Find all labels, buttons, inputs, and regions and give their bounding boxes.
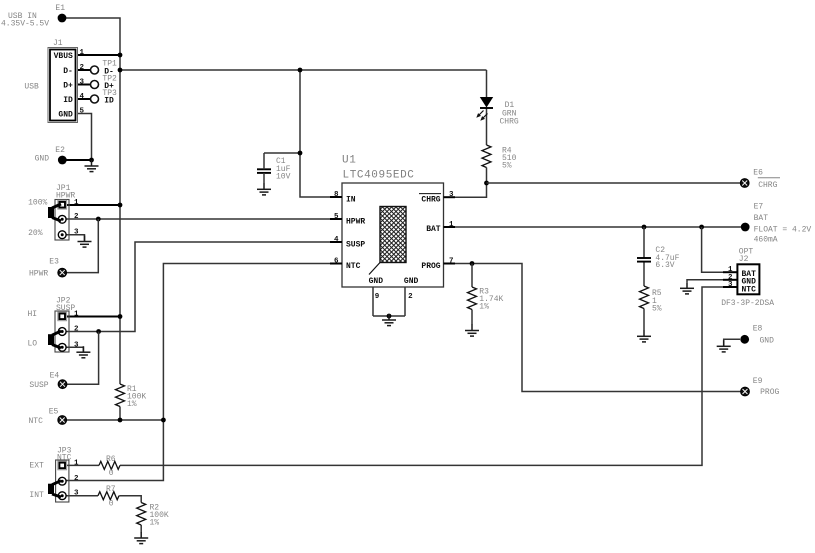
label C1 value — [276, 157, 291, 181]
svg-text:E4: E4 — [50, 372, 60, 381]
shunt bracket JP1 — [48, 204, 61, 221]
wire R3 bottom to ground — [471, 310, 473, 326]
ground at R3 — [465, 325, 479, 337]
wire C2 top — [643, 227, 645, 258]
node BAT-C2 — [642, 225, 647, 230]
connector J1 — [48, 48, 78, 123]
svg-text:E1: E1 — [55, 4, 65, 13]
wire VBUS vertical below R1 — [119, 407, 121, 421]
svg-text:BAT: BAT — [426, 225, 441, 234]
svg-text:EXT: EXT — [29, 462, 44, 471]
node C1-tap — [298, 151, 303, 156]
wire C1 tap — [264, 152, 300, 154]
svg-text:3: 3 — [74, 490, 79, 498]
wire J1 pin2 to TP1 — [78, 69, 91, 71]
svg-text:NTC: NTC — [29, 417, 44, 426]
svg-text:3: 3 — [74, 341, 79, 349]
test point TP2 — [91, 81, 99, 89]
svg-text:2: 2 — [80, 64, 85, 72]
svg-text:1: 1 — [80, 49, 85, 57]
svg-text:SUSP: SUSP — [56, 304, 75, 313]
svg-text:1%: 1% — [479, 303, 489, 312]
svg-text:R6: R6 — [106, 455, 116, 464]
svg-text:HI: HI — [28, 310, 38, 319]
svg-text:2: 2 — [408, 293, 413, 301]
shunt bracket JP2 — [48, 331, 61, 348]
svg-text:USB: USB — [24, 83, 39, 92]
wire J1 pin5 to ground — [78, 114, 92, 161]
jumper JP3 — [56, 460, 69, 502]
terminal E7 — [741, 223, 750, 232]
svg-text:ID: ID — [104, 96, 114, 105]
connector J2 — [723, 264, 759, 294]
resistor R1 — [116, 384, 125, 407]
wire E1 to VBUS vertical — [64, 18, 120, 384]
wire R6 to J2 NTC — [120, 287, 737, 465]
wire J1 pin4 to TP3 — [78, 98, 91, 100]
wire PROG to corner — [444, 264, 742, 392]
wire JP2 pin2 to SUSP pin — [66, 242, 342, 332]
svg-text:GND: GND — [58, 111, 73, 120]
wire BAT line to E7 — [444, 226, 742, 228]
svg-text:HPWR: HPWR — [29, 270, 48, 279]
svg-text:GND: GND — [760, 336, 775, 345]
svg-text:6.3V: 6.3V — [655, 261, 674, 270]
svg-text:5%: 5% — [502, 162, 512, 171]
label C2 value — [655, 246, 679, 270]
ground at E8 — [717, 340, 731, 352]
wire JP1 pin2 to HPWR pin — [66, 218, 342, 220]
wire R3 top — [471, 264, 473, 288]
node JP2pin1-VBUS — [118, 314, 123, 319]
wire CHRG to E6 — [487, 182, 742, 184]
test point TP1 — [91, 66, 99, 74]
node U1-gnd — [387, 314, 392, 319]
wire E8 to ground — [724, 339, 740, 346]
svg-text:CHRG: CHRG — [421, 196, 440, 205]
svg-text:3: 3 — [80, 78, 85, 86]
svg-text:E6: E6 — [753, 168, 763, 177]
svg-text:FLOAT = 4.2V: FLOAT = 4.2V — [754, 226, 812, 235]
wire R7 to R2 — [119, 496, 141, 503]
ground at C1 — [257, 183, 271, 195]
svg-text:D+: D+ — [63, 82, 73, 91]
wire JP3 pin1 to R6 — [66, 464, 99, 466]
wire JP2 pin1 to VBUS — [66, 316, 120, 318]
svg-text:2: 2 — [74, 326, 79, 334]
resistor R3 — [468, 287, 477, 310]
node BAT-J2 — [699, 225, 704, 230]
wire J1 pin1 stub — [78, 54, 121, 56]
svg-text:100%: 100% — [28, 199, 47, 208]
svg-text:NTC: NTC — [346, 262, 361, 271]
node IN-branch — [298, 68, 303, 73]
node NTC-R1 — [118, 418, 123, 423]
wire NTC pin to JP3 pin2 — [66, 264, 342, 481]
node JP1pin1-VBUS — [118, 203, 123, 208]
wire E5 NTC horizontal — [66, 419, 163, 421]
svg-text:20%: 20% — [28, 229, 43, 238]
jumper JP2 — [55, 311, 69, 352]
svg-text:GND: GND — [35, 155, 50, 164]
wire J1 pin3 to TP2 — [78, 84, 91, 86]
svg-text:7: 7 — [449, 258, 454, 266]
svg-text:HPWR: HPWR — [56, 192, 75, 201]
ground at R5 — [637, 330, 651, 342]
svg-text:HPWR: HPWR — [346, 218, 365, 227]
svg-text:DF3-3P-2DSA: DF3-3P-2DSA — [721, 299, 774, 308]
svg-text:9: 9 — [375, 293, 380, 301]
wire IN drop vertical — [300, 70, 342, 197]
svg-text:LTC4095EDC: LTC4095EDC — [343, 170, 415, 182]
terminal E2 — [58, 156, 67, 165]
svg-text:5%: 5% — [652, 305, 662, 314]
svg-text:5: 5 — [334, 213, 339, 221]
wire VBUS horizontal to IN and D1 — [120, 69, 487, 71]
label R5 value — [652, 289, 662, 313]
label R6 value — [106, 455, 116, 478]
ground at J2 pin2 — [680, 282, 694, 294]
svg-text:4: 4 — [334, 236, 339, 244]
node VBUS-tap — [118, 68, 123, 73]
wire C2 to R5 — [643, 262, 645, 287]
label R7 value — [106, 485, 116, 509]
wire R4 to CHRG — [444, 168, 487, 198]
wire R5 to ground — [643, 309, 645, 331]
svg-text:SUSP: SUSP — [346, 241, 365, 250]
label R1 value — [127, 385, 146, 409]
svg-text:E3: E3 — [49, 258, 59, 267]
svg-text:1: 1 — [449, 221, 454, 229]
svg-text:GND: GND — [404, 277, 419, 286]
wire D1 anode drop — [486, 70, 488, 97]
wire JP1 pin1 to VBUS — [66, 204, 120, 206]
svg-text:0: 0 — [109, 499, 114, 508]
svg-text:3: 3 — [449, 191, 454, 199]
svg-text:INT: INT — [29, 491, 44, 500]
svg-text:3: 3 — [728, 281, 733, 289]
LED D1 — [476, 97, 493, 121]
wire JP1 pin3 to ground — [66, 235, 85, 242]
terminal E5 — [58, 416, 67, 425]
resistor R5 — [640, 286, 649, 309]
terminal E9 — [741, 387, 750, 396]
terminal E4 — [58, 380, 67, 389]
svg-text:1%: 1% — [127, 400, 137, 409]
svg-text:J2: J2 — [739, 255, 749, 264]
svg-text:5: 5 — [80, 107, 85, 115]
svg-text:GND: GND — [369, 277, 384, 286]
svg-text:VBUS: VBUS — [54, 52, 73, 61]
svg-text:0: 0 — [109, 469, 114, 478]
svg-text:E2: E2 — [55, 146, 65, 155]
node PROG-R3 — [470, 261, 475, 266]
terminal E3 — [58, 268, 67, 277]
wire E4 to SUSP net — [66, 332, 99, 385]
capacitor C2 — [637, 258, 651, 262]
ground at U1 — [382, 314, 396, 326]
svg-text:NTC: NTC — [57, 453, 72, 462]
svg-text:E8: E8 — [753, 325, 763, 334]
resistor R4 — [482, 145, 491, 168]
node NTC-vert — [161, 418, 166, 423]
svg-text:ID: ID — [63, 96, 73, 105]
wire E2 to ground node — [66, 159, 92, 161]
wire D1 to R4 — [486, 108, 488, 145]
svg-text:460mA: 460mA — [754, 235, 778, 244]
svg-text:4: 4 — [80, 93, 85, 101]
test point TP3 — [91, 95, 99, 103]
svg-text:SUSP: SUSP — [29, 381, 48, 390]
resistor R2 — [137, 503, 146, 526]
svg-text:E9: E9 — [753, 377, 763, 386]
ground at E2 — [85, 160, 99, 172]
svg-text:2: 2 — [74, 475, 79, 483]
svg-text:3: 3 — [74, 229, 79, 237]
resistor R6 — [99, 461, 120, 469]
wire R2 to ground — [140, 525, 142, 533]
node HPWR-E3 tap — [96, 217, 101, 222]
resistor R7 — [98, 492, 119, 500]
jumper JP1 — [55, 200, 69, 241]
svg-text:2: 2 — [74, 213, 79, 221]
node VBUS-J1pin1 — [118, 53, 123, 58]
svg-text:1%: 1% — [150, 519, 160, 528]
IC U1 — [330, 183, 455, 287]
wire JP2 pin3 to ground — [66, 347, 83, 352]
label CHRG E6 — [758, 178, 780, 190]
svg-text:J1: J1 — [53, 39, 63, 48]
svg-text:D-: D- — [63, 67, 73, 76]
label R3 value — [479, 288, 503, 312]
ground at JP1 pin3 — [78, 236, 92, 248]
wire U1 GND bottom join — [373, 315, 405, 317]
svg-text:U1: U1 — [342, 154, 356, 166]
svg-text:BAT: BAT — [754, 214, 769, 223]
ground at R2 — [134, 532, 148, 544]
svg-text:IN: IN — [346, 196, 356, 205]
terminal E6 — [740, 179, 749, 188]
svg-text:E7: E7 — [754, 202, 764, 211]
svg-text:CHRG: CHRG — [758, 181, 777, 190]
svg-text:LO: LO — [28, 339, 38, 348]
terminal E8 — [740, 335, 749, 344]
U1 exposed pad — [369, 207, 406, 275]
svg-text:PROG: PROG — [421, 262, 440, 271]
svg-text:1: 1 — [74, 459, 79, 467]
svg-text:PROG: PROG — [760, 388, 779, 397]
svg-text:4.35V-5.5V: 4.35V-5.5V — [1, 19, 49, 28]
capacitor C1 — [257, 153, 271, 184]
node CHRG-E6 — [484, 181, 489, 186]
svg-text:NTC: NTC — [742, 285, 757, 294]
svg-text:6: 6 — [334, 258, 339, 266]
ground at JP2 pin3 — [76, 346, 90, 358]
svg-text:8: 8 — [334, 191, 339, 199]
wire U1 GND pin2 drop — [404, 287, 406, 316]
terminal E1 — [58, 14, 67, 23]
wire J2 pin1 drop — [702, 227, 738, 272]
svg-text:E5: E5 — [49, 407, 59, 416]
svg-text:CHRG: CHRG — [500, 117, 519, 126]
svg-text:10V: 10V — [276, 172, 291, 181]
wire J2 pin2 to ground — [687, 280, 737, 283]
label R2 value — [150, 504, 169, 528]
label D1 value — [500, 101, 519, 127]
shunt bracket JP3 — [48, 481, 61, 497]
wire U1 GND pin9 drop — [372, 287, 374, 316]
wire JP3 pin3 to R7 — [66, 495, 98, 497]
svg-text:D1: D1 — [505, 101, 515, 110]
node E2-gnd — [89, 158, 94, 163]
label R4 value — [502, 146, 517, 170]
svg-text:R7: R7 — [106, 485, 116, 494]
wire E3 to HPWR net — [66, 219, 98, 273]
node SUSP-E4 tap — [96, 329, 101, 334]
